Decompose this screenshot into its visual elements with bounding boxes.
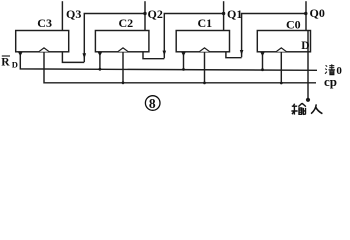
wire C0 clock pin (280, 52, 282, 83)
svg-text:0: 0 (336, 65, 342, 77)
wire Q1 to D2 top segment (164, 14, 223, 59)
wire Q1 output vertical (223, 1, 225, 30)
svg-text:Q0: Q0 (310, 6, 325, 20)
label shuru (input) char 2 (311, 104, 322, 113)
wire C1 clear pin (183, 52, 185, 69)
node C1 clear pin junction (182, 68, 185, 71)
flip-flop C1 box (176, 31, 229, 52)
wire Q2 output vertical (144, 1, 146, 30)
svg-text:8: 8 (149, 96, 156, 111)
svg-text:R: R (1, 56, 10, 68)
svg-text:Q1: Q1 (227, 7, 242, 21)
node C2 clock pin junction (122, 81, 125, 84)
node C0 clear pin junction (261, 68, 264, 71)
wire C1 clock pin (204, 52, 206, 83)
figure number 8 circled (145, 96, 160, 111)
svg-text:cp: cp (324, 74, 337, 89)
wire Q0 to D1 top segment (242, 14, 306, 58)
svg-text:Q3: Q3 (66, 7, 81, 21)
wire D3 staircase from C3 bottom pin (62, 52, 84, 63)
node C1 clock pin junction (203, 82, 206, 85)
svg-text:C2: C2 (119, 16, 134, 30)
label qing0 (clear) (325, 64, 335, 75)
node input terminal dot (306, 98, 310, 102)
node junction dot on Q2 line (143, 12, 146, 15)
svg-text:D: D (12, 60, 18, 70)
arrowhead on D2 drop wire (163, 51, 167, 56)
flip-flop C3 box (16, 31, 69, 52)
clock edge triangle C2 (118, 48, 128, 52)
label shuru (input) char 1 (291, 103, 306, 114)
arrowhead on D1 drop wire (240, 50, 244, 55)
pin marker v on C3 clear input (18, 52, 22, 56)
node C0 clock pin junction (280, 82, 283, 85)
wire cp clock line (44, 52, 316, 83)
wire Q3 output vertical (61, 1, 63, 30)
clock edge triangle C3 (39, 48, 49, 52)
wire C2 clock pin (122, 52, 124, 83)
wire D1 staircase from C1 bottom pin (226, 52, 242, 58)
node C2 clear pin junction (99, 68, 102, 71)
wire clear line (R_D / qing0 net) (20, 52, 317, 70)
svg-text:D: D (301, 40, 309, 52)
pin marker v on C0 clear input (260, 52, 264, 56)
arrowhead on D3 drop wire (83, 53, 87, 59)
flip-flop C0 box (257, 31, 310, 52)
node junction dot on Q0 line (304, 12, 307, 15)
flip-flop C2 box (95, 31, 148, 52)
wire Q2 to D3 top segment (84, 14, 145, 63)
svg-text:C1: C1 (198, 16, 213, 30)
node junction dot on Q1 line (222, 12, 225, 15)
pin marker v on C2 clear input (98, 52, 102, 56)
wire D2 staircase from C2 bottom pin (143, 52, 164, 59)
svg-text:C0: C0 (286, 17, 301, 31)
clock edge triangle C1 (199, 48, 209, 52)
wire Q0 output vertical (305, 1, 307, 30)
wire serial input to D of C0 (307, 31, 309, 100)
wire C0 clear pin (262, 52, 264, 69)
clock edge triangle C0 (276, 48, 286, 52)
svg-text:C3: C3 (37, 16, 52, 30)
pin marker v on C1 clear input (181, 52, 185, 56)
wire C2 clear pin (99, 52, 101, 69)
svg-text:Q2: Q2 (148, 7, 163, 21)
